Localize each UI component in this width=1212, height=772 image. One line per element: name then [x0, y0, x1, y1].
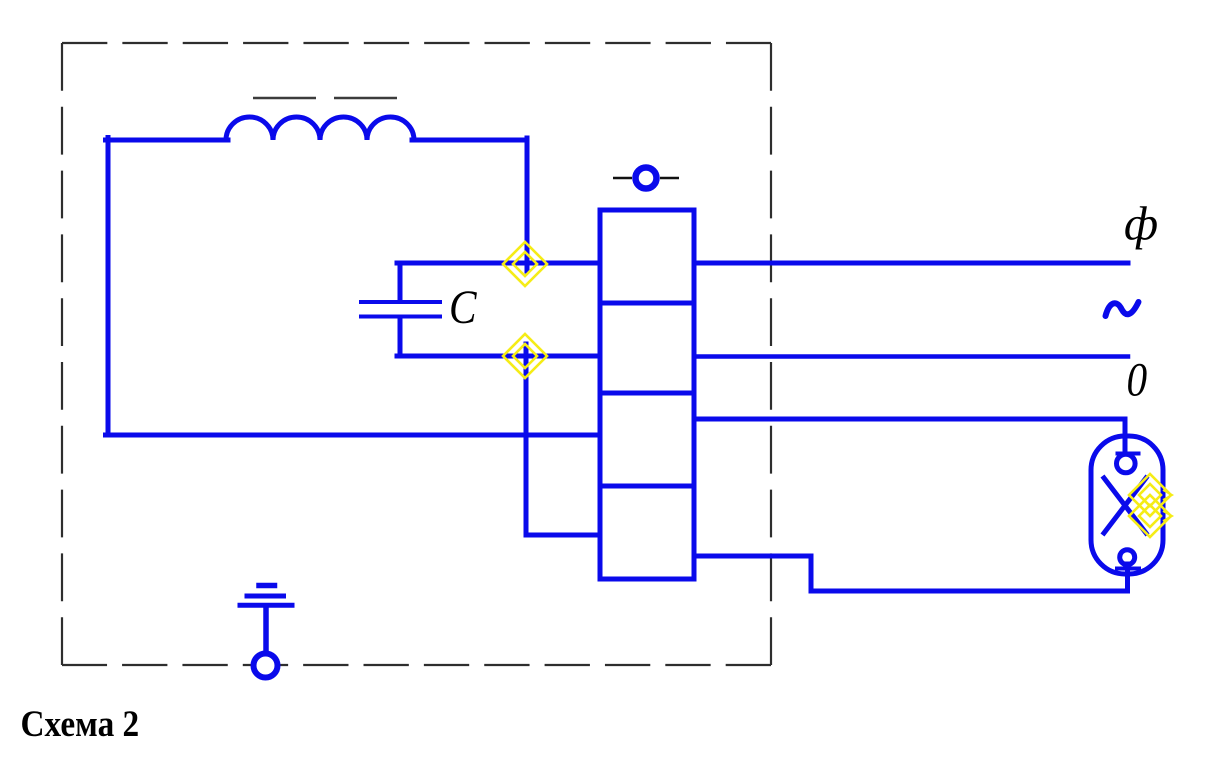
- AC symbol ~: [1106, 302, 1139, 316]
- wire: lamp bottom return with step: [694, 556, 1128, 591]
- terminal block divider 2: [600, 391, 694, 396]
- wire: left rail: [106, 138, 111, 436]
- terminal block outline: [600, 210, 694, 579]
- svg-text:Схема 2: Схема 2: [21, 703, 140, 744]
- svg-text:ф: ф: [1124, 198, 1158, 251]
- ground: long bar: [240, 603, 292, 608]
- lamp tube outline: [1091, 436, 1163, 574]
- svg-text:C: C: [449, 280, 478, 334]
- dashed enclosure border bottom edge: [62, 664, 771, 666]
- ground terminal circle on border: [254, 654, 278, 678]
- indicator lead left: [613, 177, 632, 179]
- ground: middle bar: [247, 594, 284, 599]
- wire: top left horizontal: [106, 138, 229, 143]
- lamp bottom electrode bar: [1117, 567, 1139, 571]
- wire: long bottom horizontal from left rail to terminal block: [106, 433, 601, 438]
- terminal block divider 3: [600, 484, 694, 489]
- lamp highlight diamonds: [1129, 474, 1171, 516]
- inductor core dash 1: [253, 97, 316, 100]
- inductor L (choke): [226, 117, 414, 140]
- lamp top electrode circle: [1117, 454, 1136, 473]
- wire: phase output ф: [694, 261, 1128, 266]
- label C: [449, 280, 478, 334]
- wire: vertical drop from inductor to node A: [525, 138, 530, 271]
- terminal block divider 1: [600, 301, 694, 306]
- wire: vertical from node B down with elbow to terminal block: [526, 344, 600, 535]
- indicator lead right: [660, 177, 679, 179]
- node B highlight (double diamond): [503, 334, 547, 378]
- capacitor C (stems and plates): [398, 264, 403, 301]
- wire: inductor to corner: [412, 138, 527, 143]
- dashed enclosure border left edge: [61, 43, 63, 665]
- ground: short bar: [259, 583, 275, 589]
- caption Схема 2: [21, 703, 140, 744]
- lamp top electrode bar: [1118, 452, 1139, 456]
- dashed enclosure border top edge: [62, 42, 771, 44]
- ground: stem: [263, 606, 269, 651]
- label 0: [1127, 353, 1148, 407]
- wire: capacitor top branch to terminal block: [397, 261, 600, 266]
- lamp bottom electrode circle: [1120, 550, 1135, 565]
- wire: neutral output 0: [694, 354, 1128, 359]
- lamp cross: [1104, 478, 1146, 533]
- wire: lamp top feed: [694, 419, 1125, 450]
- dashed enclosure border right edge: [770, 43, 772, 665]
- svg-text:0: 0: [1127, 353, 1148, 407]
- node A highlight (double diamond): [503, 242, 547, 286]
- indicator circle above terminal block: [636, 168, 657, 189]
- wire: capacitor bottom branch to terminal block: [397, 354, 600, 359]
- inductor core dash 2: [334, 97, 397, 100]
